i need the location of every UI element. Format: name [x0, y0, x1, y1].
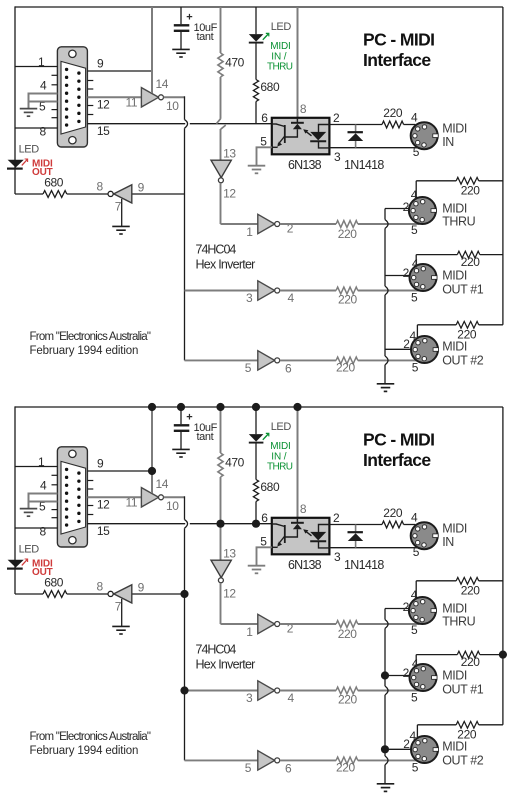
junction +V rail / C1	[177, 403, 185, 411]
LED D1 MIDI IN/THRU triangle	[249, 34, 264, 42]
label J1 pin 12	[97, 98, 110, 112]
U2 emitter arrowhead	[277, 542, 282, 547]
U2 input diode triangle	[293, 124, 302, 129]
label U1B input 1	[246, 625, 253, 639]
svg-text:8: 8	[97, 180, 104, 194]
wire J1 pin 4 to ground bracket	[29, 94, 58, 102]
label U1 pin 7	[115, 200, 122, 214]
wire J3 MIDI THRU 220 row left	[416, 580, 456, 582]
wire J5 MIDI OUT2 pin 4 riser	[416, 325, 418, 338]
label C1 value 10uF	[194, 422, 218, 434]
svg-text:4: 4	[288, 691, 295, 705]
label J2 pin 5	[413, 145, 420, 159]
label J1 pin 15	[97, 524, 110, 538]
wire crossover jog lower diagonal	[221, 125, 226, 129]
label U1F output 8	[97, 580, 104, 594]
label J3 MIDI THRU pin 2	[403, 200, 410, 214]
label U1E output 12	[223, 187, 236, 201]
label C1 polarity +	[186, 12, 192, 24]
label J3 MIDI THRU name line 2	[442, 214, 475, 228]
junction pin 9 drop	[148, 467, 156, 475]
capacitor C1 plate bottom	[174, 30, 190, 32]
label J4 MIDI OUT1 pin 2	[403, 666, 410, 680]
svg-text:5: 5	[411, 291, 418, 305]
wire R6 to MIDI OUT2 pin 5	[358, 359, 420, 361]
wire capacitor C1 stem bottom	[180, 432, 182, 449]
wire U1B output to R4	[280, 623, 336, 625]
svg-text:470: 470	[225, 56, 245, 70]
label D2 MIDI (red)	[32, 558, 53, 569]
connector J1 screw hole top	[69, 50, 76, 57]
ground at U1 pin 7	[112, 626, 130, 634]
wire J5 MIDI OUT2 pin 2 to ground line	[385, 348, 411, 350]
svg-text:5: 5	[413, 545, 420, 559]
wire U2 pin 3 to MIDI IN pin 5	[329, 547, 417, 549]
wire serial branch to U1C input	[185, 690, 258, 692]
wire U1E output down	[220, 183, 222, 224]
op U1F inverter triangle 9-8	[114, 185, 132, 203]
resistor R1 470 zigzag	[218, 453, 223, 477]
wire U1E output to U1B input	[221, 623, 258, 625]
wire R7 to MIDI IN pin 4	[404, 124, 416, 126]
diode D3 1N1418 stem top	[355, 525, 357, 532]
wire ground bus segment 2	[384, 228, 386, 286]
svg-text:5: 5	[260, 534, 267, 548]
connector J5 MIDI OUT2 DIN	[411, 336, 439, 363]
wire ground bus segment 2	[384, 628, 386, 686]
label J2 pin 4	[411, 511, 418, 525]
label C1 polarity +	[186, 412, 192, 424]
resistor R3 680 zigzag	[43, 191, 67, 198]
wire R4 to MIDI THRU pin 5	[358, 623, 420, 625]
junction ground bus / OUT1 pin 2	[381, 671, 389, 679]
svg-text:MIDI: MIDI	[442, 122, 467, 136]
svg-text:220: 220	[338, 627, 358, 641]
label U2 pin 8	[300, 102, 307, 116]
svg-text:5: 5	[260, 134, 267, 148]
op U1A inverter triangle 11-10	[141, 488, 158, 507]
svg-text:8: 8	[300, 102, 307, 116]
svg-text:THRU: THRU	[442, 214, 475, 228]
svg-text:OUT #1: OUT #1	[442, 683, 484, 697]
label U2 6N138	[288, 158, 322, 172]
wire J4 MIDI OUT1 pin 4 riser	[415, 655, 417, 666]
svg-text:Hex Inverter: Hex Inverter	[196, 257, 256, 271]
LED D2 MIDI OUT triangle	[8, 560, 24, 568]
wire serial drop lower	[184, 128, 186, 360]
svg-text:3: 3	[246, 291, 253, 305]
wire J1 pin 15 to 6N138 pin 6 (left part)	[87, 523, 185, 525]
label MIDI IN line 1	[442, 522, 467, 536]
wire J4 MIDI OUT1 pin 2 to ground line	[385, 675, 411, 677]
label R5 value 220	[338, 293, 358, 307]
svg-text:7: 7	[115, 600, 122, 614]
label C1 value tant	[197, 31, 214, 43]
wire J1 pin 15 to 6N138 pin 6 (right part)	[190, 123, 272, 125]
svg-text:220: 220	[461, 184, 481, 198]
svg-text:4: 4	[412, 257, 419, 271]
svg-text:680: 680	[260, 80, 280, 94]
label U1A input 11	[126, 496, 138, 510]
connector J1 pin stubs left	[52, 75, 58, 117]
label J5 MIDI OUT2 resistor 220	[457, 728, 477, 742]
svg-text:5: 5	[412, 761, 419, 775]
wire J4 MIDI OUT1 220 row left	[416, 254, 457, 256]
wire left border (DB15 pin 1 / pin 8 feed)	[14, 406, 16, 594]
wire R2 bottom to data line	[255, 102, 257, 124]
svg-text:1: 1	[246, 225, 253, 239]
wire R1 bottom upper segment	[220, 77, 222, 119]
label J4 MIDI OUT1 pin 4	[412, 257, 419, 271]
label R6 value 220	[336, 761, 356, 775]
svg-text:4: 4	[411, 511, 418, 525]
wire U2 pin 3 to MIDI IN pin 5	[329, 147, 417, 149]
label R4 value 220	[338, 227, 358, 241]
label LED D2	[19, 144, 40, 156]
U2 photodiode to pin 3	[319, 541, 330, 548]
U2 photodiode riser	[319, 125, 330, 133]
LED D2 MIDI OUT triangle	[8, 160, 24, 168]
label D2 OUT (red)	[32, 167, 53, 178]
wire J4 MIDI OUT1 pin 4 riser	[415, 255, 417, 266]
label U1E input 13	[223, 147, 236, 161]
wire U1C output to R5	[280, 290, 336, 292]
label D1 MIDI (green)	[270, 41, 290, 52]
LED D2 cathode bar	[7, 168, 23, 170]
wire J4 MIDI OUT1 pin 2 to ground line	[385, 275, 411, 277]
label LED D1	[271, 21, 292, 33]
wire R6 to MIDI OUT2 pin 5	[358, 759, 420, 761]
wire ground bus hop over OUT2 row	[385, 356, 388, 365]
diode D3 triangle	[348, 533, 363, 541]
svg-text:PC - MIDI: PC - MIDI	[363, 430, 434, 450]
resistor R7 220 zigzag	[382, 121, 404, 128]
svg-text:2: 2	[403, 200, 410, 214]
svg-text:MIDI: MIDI	[442, 269, 467, 283]
label J3 MIDI THRU pin 5	[411, 623, 418, 637]
svg-text:MIDI: MIDI	[270, 41, 290, 52]
svg-text:4: 4	[40, 79, 47, 93]
svg-text:13: 13	[223, 547, 236, 561]
U2 emitter arrowhead	[277, 142, 282, 147]
wire R2 bottom to data line	[255, 502, 257, 524]
label J4 MIDI OUT1 name line 2	[442, 283, 484, 297]
wire serial branch to U1C input	[185, 290, 258, 292]
U2 diode to base wire	[285, 529, 298, 537]
svg-text:From "Electronics Australia": From "Electronics Australia"	[30, 731, 151, 743]
U2 transistor collector	[276, 124, 285, 127]
svg-text:12: 12	[223, 587, 236, 601]
connector J2 MIDI IN DIN	[411, 122, 438, 149]
wire hop over pin15 row	[185, 520, 188, 529]
label D3 1N1418	[344, 558, 384, 572]
label J5 MIDI OUT2 pin 5	[412, 761, 419, 775]
svg-text:220: 220	[461, 655, 481, 669]
svg-text:MIDI: MIDI	[270, 441, 290, 452]
label D2 OUT (red)	[32, 567, 53, 578]
wire +V top rail	[15, 6, 503, 8]
op U1D inverter triangle 5-6	[258, 351, 275, 370]
label J4 MIDI OUT1 pin 5	[411, 291, 418, 305]
op U1A inverter triangle 11-10	[141, 88, 158, 107]
svg-text:220: 220	[336, 361, 356, 375]
wire J1 pin 15 to 6N138 pin 6 (left part)	[87, 123, 185, 125]
connector J2 MIDI IN DIN	[411, 522, 438, 549]
label J5 MIDI OUT2 name line 1	[442, 740, 467, 754]
label R1 value 470	[225, 456, 245, 470]
label J2 pin 4	[411, 111, 418, 125]
junction +V rail / pin9 drop	[148, 403, 156, 411]
wire R1 to U1E input	[220, 559, 222, 562]
svg-text:12: 12	[223, 187, 236, 201]
svg-text:+: +	[186, 12, 192, 24]
op U1C inverter triangle 3-4	[258, 281, 275, 300]
connector J3 MIDI THRU DIN	[409, 597, 437, 624]
label U1E output 12	[223, 587, 236, 601]
label U2 6N138	[288, 558, 322, 572]
U2 photodiode triangle	[310, 532, 326, 541]
resistor R6 220 zigzag	[336, 357, 358, 364]
svg-text:10: 10	[166, 499, 179, 513]
ground at bus bottom	[377, 384, 395, 392]
diode D3 cathode bar	[348, 131, 363, 133]
wire hop over pin15 row	[185, 120, 188, 129]
resistor R7 220 zigzag	[382, 521, 404, 528]
wire J1 pin 4 to ground bracket	[29, 494, 58, 502]
wire U1B output to R4	[280, 223, 336, 225]
label U1B output 2	[287, 622, 294, 636]
svg-text:13: 13	[223, 147, 236, 161]
wire R5 to MIDI OUT1 pin 5	[358, 290, 420, 292]
label 74HC04	[196, 643, 237, 657]
svg-text:MIDI: MIDI	[442, 740, 467, 754]
resistor J4 MIDI OUT1 220 zigzag	[457, 251, 480, 258]
label J4 MIDI OUT1 pin 2	[403, 266, 410, 280]
connector J1 screw hole bottom	[69, 137, 76, 144]
svg-text:6N138: 6N138	[288, 558, 322, 572]
resistor J4 MIDI OUT1 220 zigzag	[457, 651, 480, 658]
wire left border (DB15 pin 1 / pin 8 feed)	[14, 6, 16, 194]
connector J1 D-face	[61, 461, 86, 534]
op U1F output bubble	[108, 191, 113, 196]
wire J4 MIDI OUT1 220 row left	[416, 654, 457, 656]
wire J1 pin 15 to 6N138 pin 6 (right part)	[190, 523, 272, 525]
label U2 pin 6	[261, 511, 268, 525]
label U1D input 5	[245, 361, 252, 375]
svg-text:4: 4	[288, 291, 295, 305]
label J1 pin 8	[40, 125, 47, 139]
wire D1 to R2 680	[255, 44, 257, 80]
label U1E input 13	[223, 547, 236, 561]
label U2 pin 3	[334, 550, 341, 564]
U2 input diode stem	[296, 118, 298, 122]
svg-text:1N1418: 1N1418	[344, 558, 384, 572]
wire ground bus segment 3	[384, 295, 386, 356]
svg-text:220: 220	[338, 293, 358, 307]
svg-text:680: 680	[260, 480, 280, 494]
label J1 pin 12	[97, 498, 110, 512]
label D1 THRU (green)	[267, 61, 293, 72]
label MIDI IN line 2	[442, 535, 454, 549]
svg-text:Interface: Interface	[363, 50, 431, 70]
wire inverter row U1F right	[132, 193, 185, 195]
op U1F output bubble	[108, 591, 113, 596]
wire U1 pin 7 stem	[121, 199, 123, 226]
resistor R5 220 zigzag	[336, 687, 358, 694]
title Interface	[363, 50, 431, 70]
svg-text:10: 10	[166, 99, 179, 113]
svg-text:5: 5	[245, 361, 252, 375]
svg-text:5: 5	[412, 361, 419, 375]
connector J1 pin dots right column	[77, 71, 80, 123]
wire serial drop corner to U1D input	[185, 759, 258, 761]
op U1C output bubble	[275, 288, 280, 293]
wire R5 to MIDI OUT1 pin 5	[358, 690, 420, 692]
svg-text:6: 6	[285, 362, 292, 376]
svg-text:Interface: Interface	[363, 450, 431, 470]
wire U1E output to U1B input	[221, 223, 258, 225]
svg-text:9: 9	[138, 181, 145, 195]
svg-text:4: 4	[40, 479, 47, 493]
label U2 pin 2	[333, 511, 340, 525]
label J3 MIDI THRU resistor 220	[461, 184, 481, 198]
label U1D output 6	[285, 362, 292, 376]
wire +V drop to pin 9 and U1 pin 14	[151, 7, 153, 90]
label Hex Inverter	[196, 657, 256, 671]
diode D3 1N1418 stem top	[355, 125, 357, 132]
wire U1D output to R6	[280, 359, 336, 361]
ground at J1 pins 4-5	[20, 509, 38, 517]
svg-text:MIDI: MIDI	[442, 340, 467, 354]
svg-text:THRU: THRU	[267, 461, 293, 472]
svg-text:February 1994 edition: February 1994 edition	[30, 745, 139, 757]
connector J1 D-face	[61, 61, 86, 134]
wire R1 470 top	[220, 7, 222, 53]
label U1C input 3	[246, 291, 253, 305]
svg-text:220: 220	[336, 761, 356, 775]
resistor R5 220 zigzag	[336, 287, 358, 294]
wire serial drop lower	[184, 528, 186, 760]
wire ground stem at J1	[28, 102, 30, 109]
label U1 pin 7	[115, 600, 122, 614]
svg-text:470: 470	[225, 456, 245, 470]
label U2 pin 2	[333, 111, 340, 125]
U2 pin 6 inner stub	[272, 523, 277, 525]
svg-text:2: 2	[333, 111, 340, 125]
diode D3 cathode bar	[348, 531, 363, 533]
U2 input diode stem	[296, 518, 298, 522]
svg-text:220: 220	[338, 693, 358, 707]
label U2 pin 3	[334, 150, 341, 164]
resistor R4 220 zigzag	[336, 621, 358, 628]
label U2 pin 5	[260, 534, 267, 548]
svg-text:OUT #1: OUT #1	[442, 283, 484, 297]
wire U1 pin 14 stem	[151, 471, 153, 493]
svg-text:11: 11	[126, 96, 138, 110]
label R3 value 680	[44, 176, 64, 190]
wire left border corner to R3	[15, 193, 43, 195]
U2 pin 6 inner stub	[272, 123, 277, 125]
label U1 pin 14	[156, 77, 169, 91]
connector J1 screw hole bottom	[69, 537, 76, 544]
caption source line 1	[30, 331, 151, 343]
label R7 value 220	[383, 106, 403, 120]
label U2 pin 5	[260, 134, 267, 148]
connector J1 pin stubs left	[52, 475, 58, 517]
wire left border corner to R3	[15, 593, 43, 595]
wire LED D1 feed from +V	[255, 7, 257, 34]
label J4 MIDI OUT1 name line 1	[442, 269, 467, 283]
U2 photodiode cathode bar	[310, 140, 326, 142]
label J5 MIDI OUT2 name line 2	[442, 354, 484, 368]
caption source line 1	[30, 731, 151, 743]
svg-text:8: 8	[40, 125, 47, 139]
connector J1 pin stubs right	[87, 481, 93, 515]
svg-text:MIDI: MIDI	[442, 522, 467, 536]
junction ground bus / OUT2 pin 2	[381, 745, 389, 753]
svg-text:8: 8	[40, 525, 47, 539]
label J5 MIDI OUT2 pin 5	[412, 361, 419, 375]
junction +V rail / U2 pin 8	[293, 403, 301, 411]
op U1E output bubble	[218, 178, 223, 183]
svg-text:4: 4	[410, 329, 417, 343]
svg-text:3: 3	[334, 550, 341, 564]
label U1A output 10	[166, 99, 179, 113]
label U1A output 10	[166, 499, 179, 513]
label U1D input 5	[245, 761, 252, 775]
wire U2 pin 5 to ground	[257, 547, 272, 565]
wire J1 pin 8 to left border	[15, 527, 57, 529]
wire U1E output down	[220, 583, 222, 624]
svg-text:1N1418: 1N1418	[344, 158, 384, 172]
label LED D1	[271, 421, 292, 433]
ground at C1	[172, 49, 190, 57]
label R4 value 220	[338, 627, 358, 641]
ground at bus bottom	[377, 784, 395, 792]
label J5 MIDI OUT2 pin 2	[403, 737, 410, 751]
svg-text:4: 4	[411, 588, 418, 602]
wire J4 MIDI OUT1 220 row to +V border	[480, 254, 503, 256]
wire ground bus hop over THRU row	[385, 620, 388, 629]
label J3 MIDI THRU pin 4	[411, 188, 418, 202]
svg-text:Hex Inverter: Hex Inverter	[196, 657, 256, 671]
wire U1A output to serial drop	[164, 496, 185, 498]
wire J1 pin 9 to +V drop	[87, 470, 152, 472]
wire ground bus hop over OUT1 row	[385, 286, 388, 295]
svg-text:+: +	[186, 412, 192, 424]
wire R1 470 top	[220, 407, 222, 453]
wire right border +V	[502, 407, 504, 725]
wire J5 MIDI OUT2 220 row left	[417, 324, 456, 326]
label J5 MIDI OUT2 resistor 220	[457, 328, 477, 342]
U2 input diode triangle	[293, 524, 302, 529]
wire J3 MIDI THRU pin 4 riser	[415, 581, 417, 599]
wire J5 MIDI OUT2 220 row to +V border	[479, 324, 503, 326]
connector J1 screw hole top	[69, 450, 76, 457]
label R7 value 220	[383, 506, 403, 520]
wire ground bus segment 3	[384, 695, 386, 756]
junction serial / U1C input	[180, 686, 188, 694]
wire ground bus segment 4	[384, 765, 386, 784]
label J5 MIDI OUT2 pin 4	[410, 729, 417, 743]
label J1 pin 4	[40, 79, 47, 93]
U2 photodiode riser	[319, 525, 330, 533]
U2 photodiode triangle	[310, 132, 326, 141]
wire serial drop upper	[184, 496, 186, 519]
op-amp U2 6N138 body	[272, 518, 330, 555]
wire J1 pin 1 to left border	[15, 66, 57, 68]
resistor J5 MIDI OUT2 220 zigzag	[456, 321, 479, 328]
